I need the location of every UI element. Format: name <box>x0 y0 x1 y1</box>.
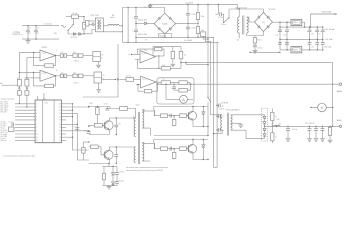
capacitor C4 module <box>92 22 94 26</box>
svg-text:17: 17 <box>59 127 61 129</box>
wire fb4 right <box>152 84 158 91</box>
node S1 a <box>68 30 69 31</box>
svg-text:150к: 150к <box>201 16 205 18</box>
svg-text:КРЕН: КРЕН <box>293 22 297 24</box>
node outrail4 <box>322 126 323 127</box>
node lv6 <box>309 49 310 50</box>
resistor R2 <box>82 23 85 30</box>
wire x188 a <box>187 4 189 13</box>
capacitor C19 low <box>285 43 289 45</box>
node bus v1 top <box>207 4 208 5</box>
svg-text:С31 0,1: С31 0,1 <box>126 75 132 77</box>
resistor R27 <box>179 81 187 85</box>
transformer T2 core <box>137 112 139 164</box>
resistor R3b <box>25 91 29 96</box>
wire bridge top lead <box>164 8 166 14</box>
svg-text:0,1: 0,1 <box>37 33 39 35</box>
transistor block2 <box>188 144 197 153</box>
wire IC pin R12 <box>61 139 66 141</box>
wire T1 aux r3 <box>254 47 256 50</box>
wire B inner <box>158 82 190 84</box>
inductor Dr1 box <box>120 107 128 111</box>
wire op2 +in <box>27 77 40 79</box>
node VT2 e <box>116 163 117 164</box>
wire left vertical feed <box>18 52 20 79</box>
wire aux d mid <box>112 176 114 182</box>
current sense box <box>157 78 194 104</box>
node r3a <box>19 103 20 104</box>
node c25 a <box>322 26 323 27</box>
svg-text:С2: С2 <box>37 27 39 29</box>
box TV sensor <box>86 21 90 27</box>
node block2 em <box>207 159 208 160</box>
wire cap25 stub <box>322 27 324 30</box>
diode VD1 <box>73 33 75 36</box>
wire block1 diode bot <box>202 114 204 126</box>
node R13 feed <box>88 141 89 142</box>
IC U1 PWM controller outer <box>35 100 61 143</box>
node vm left <box>310 107 311 108</box>
node op1 out <box>55 55 56 56</box>
wire VT1 base feed <box>89 124 95 126</box>
wire top AC rail <box>22 25 59 27</box>
bridge rectifier VD5-VD8 <box>255 13 273 32</box>
wire chain2 b <box>83 75 94 77</box>
wire reg2 out <box>302 49 323 51</box>
wire op1 -in <box>19 51 40 53</box>
node r16 tap <box>180 62 181 63</box>
wire out plus drop <box>332 63 334 127</box>
ground C37 <box>307 139 312 142</box>
node bridge bottom <box>164 37 165 38</box>
svg-text:-Uс 300В: -Uс 300В <box>184 40 193 42</box>
wire bus v2 <box>205 36 210 114</box>
svg-text:R1 75к: R1 75к <box>73 13 78 15</box>
wire pinr ext1 <box>66 106 89 108</box>
regulator DA1 box <box>291 19 302 25</box>
wire bridge right lead <box>176 22 198 24</box>
wire 12V arrow feed <box>310 14 312 27</box>
wire A horizontal <box>181 62 333 64</box>
node outrail1 <box>287 126 288 127</box>
svg-text:10к 1%: 10к 1% <box>74 82 80 84</box>
node outrail3 <box>315 126 316 127</box>
node outrail5 <box>329 126 330 127</box>
wire VT2 cap b <box>115 156 117 163</box>
node VT1 e <box>116 134 117 135</box>
wire r16 top <box>180 47 182 52</box>
svg-text:ВЫХ-: ВЫХ- <box>337 120 343 122</box>
svg-text:IC1.4: IC1.4 <box>142 79 146 81</box>
wire cap20 stub2 <box>309 32 311 40</box>
wire diode chain <box>72 33 84 35</box>
svg-text:12В 250мА: 12В 250мА <box>322 10 332 13</box>
wire term b stub <box>26 86 28 88</box>
node aux a <box>112 166 113 167</box>
terminal OUT- <box>339 125 341 127</box>
wire T1 top rail <box>228 9 230 18</box>
svg-text:вывод контроллера: вывод контроллера <box>1 98 15 100</box>
wire block1 diode top <box>202 107 204 112</box>
resistor R8a <box>60 74 63 78</box>
wire bus cap2 stub <box>217 115 218 117</box>
resistor R2a input <box>17 79 21 86</box>
wire VT1 cap a <box>115 118 117 125</box>
node rail a <box>122 25 123 26</box>
wire lv rail B2 <box>286 32 288 50</box>
wire term a stub2 <box>18 89 20 91</box>
svg-text:24: 24 <box>59 103 61 105</box>
wire T1 sec bottom <box>247 32 264 36</box>
svg-text:С9 1м: С9 1м <box>104 104 108 106</box>
svg-text:КЦ405: КЦ405 <box>162 24 167 26</box>
wire pinr ext2 <box>66 112 77 114</box>
capacitor block1 speedup <box>170 114 172 118</box>
ground P1 <box>96 65 101 68</box>
svg-text:ВТ2 +12В п: ВТ2 +12В п <box>1 103 9 105</box>
winding block1 input <box>153 110 156 116</box>
resistor R9b <box>78 74 83 78</box>
wire c4 stub2 <box>94 23 96 25</box>
svg-text:частота преобразователя с удво: частота преобразователя с удвоенными имп… <box>3 155 35 157</box>
wire T1 aux r <box>254 36 256 38</box>
wire fb3 vert <box>136 49 138 54</box>
capacitor on fb bus <box>87 132 91 134</box>
node rail1 a <box>135 37 136 38</box>
svg-text:10к: 10к <box>73 73 76 75</box>
winding T3 secondary <box>231 115 233 131</box>
svg-text:+5В КРЕН: +5В КРЕН <box>221 102 229 104</box>
wire bottom rail 2 <box>122 41 218 43</box>
svg-text:1м: 1м <box>222 105 224 107</box>
winding M1 secondary <box>100 20 102 29</box>
wire IC pin L8 <box>15 127 35 129</box>
wire pinr ext5 <box>66 136 73 138</box>
capacitor C11 snub <box>114 155 118 157</box>
wire cap23 stub2 <box>309 44 311 50</box>
svg-text:С23: С23 <box>311 46 314 48</box>
wire T2 sec tap1 <box>142 110 154 112</box>
node 12v <box>88 106 89 107</box>
diode block1 clamp <box>202 112 205 114</box>
wire aux cap stub <box>116 166 118 172</box>
node op4 fb <box>157 84 158 85</box>
transistor VT2 driver <box>104 150 113 159</box>
node r16 join <box>207 64 208 65</box>
wire R13 hfeed <box>83 141 88 143</box>
node relay feed <box>218 4 219 5</box>
wire pullup drop <box>152 47 154 56</box>
wire block2 diode bot <box>202 147 204 159</box>
wire ocap2 stub2 <box>322 130 324 138</box>
node q1 base rail <box>88 126 89 127</box>
svg-text:12к: 12к <box>144 50 147 52</box>
capacitor C25 <box>321 30 325 32</box>
node aux b <box>112 185 113 186</box>
winding dot b <box>143 109 144 110</box>
node outrail2 <box>309 126 310 127</box>
capacitor C17 <box>278 30 282 32</box>
wire rail x128 <box>127 8 129 43</box>
op-amp IC1.1 <box>40 50 56 61</box>
test point TP <box>117 79 119 81</box>
svg-text:140 мк: 140 мк <box>221 24 226 26</box>
node t1 top <box>239 8 240 9</box>
svg-text:LM324: LM324 <box>41 47 47 49</box>
resistor R5a <box>60 54 63 58</box>
diode VD34 <box>263 134 266 136</box>
terminal input A <box>19 88 21 90</box>
svg-text:-5В, 0мА: -5В, 0мА <box>324 46 332 49</box>
wire op4 out jog <box>156 82 158 84</box>
wire x188 b <box>187 15 189 27</box>
capacitor C22 <box>315 30 319 32</box>
capacitor C5 electrolytic <box>134 17 138 19</box>
node fb bus <box>72 103 73 104</box>
wire ammeter right <box>187 98 193 100</box>
wire fb4 vert <box>137 85 139 92</box>
wire fb3 right <box>162 49 164 56</box>
wire aux net feed <box>108 164 110 167</box>
wire cap rail x136 top <box>135 8 137 16</box>
wire C3 lead low <box>35 32 37 39</box>
wire r15 gnd <box>172 59 174 63</box>
wire voltmeter right <box>326 107 332 109</box>
resistor R11 <box>91 145 99 149</box>
node rect out <box>264 126 265 127</box>
node mid rail <box>207 135 208 136</box>
capacitor C18 low <box>278 43 282 45</box>
capacitor C35 <box>286 129 290 131</box>
wire block1 top rail <box>154 106 208 108</box>
wire r28 left <box>174 89 179 91</box>
wire block2 vres bot <box>173 159 175 160</box>
resistor R14 <box>102 173 105 180</box>
wire op2 -in <box>19 71 40 73</box>
resistor R24 <box>161 67 170 70</box>
wire IC pin L10 <box>15 133 35 135</box>
wire IC pin R8 <box>61 127 66 129</box>
resistor R21 <box>253 38 256 44</box>
svg-text:С13 0,1: С13 0,1 <box>191 14 197 16</box>
resistor R4 feedback <box>45 64 54 67</box>
svg-text:1114: 1114 <box>45 102 48 104</box>
wire relay feed <box>217 4 219 14</box>
wire B jog <box>189 83 191 85</box>
wire R1 right lead <box>78 16 84 18</box>
wire top HV rail <box>150 3 237 5</box>
wire cap22 stub <box>316 27 318 30</box>
wire IC pin L2 <box>15 106 35 108</box>
op-amp IC1.3 <box>140 51 156 63</box>
resistor R13 <box>82 148 85 154</box>
svg-text:С14 0,1: С14 0,1 <box>191 28 197 30</box>
node AC top C2 <box>27 25 28 26</box>
winding dot c <box>143 143 144 144</box>
transformer T1 core <box>241 16 243 35</box>
resistor R9a <box>73 74 77 78</box>
capacitor C3 <box>34 30 38 32</box>
node block1 d2 <box>203 126 204 127</box>
svg-text:1к: 1к <box>101 57 103 59</box>
wire bridge bottom lead <box>164 34 166 37</box>
diode block2 clamp <box>202 145 205 147</box>
underline 220V <box>12 34 23 36</box>
wire M1 out bottom <box>103 31 122 33</box>
capacitor C15 <box>220 12 222 16</box>
ground T3 center tap <box>238 125 243 128</box>
svg-text:К8 +12В к: К8 +12В к <box>1 136 8 138</box>
resistor R15 pullup <box>171 51 174 58</box>
wire IC pin L7 <box>15 123 35 125</box>
wire VT1 cap b <box>115 127 117 135</box>
svg-text:A: A <box>182 98 185 102</box>
svg-text:4: 4 <box>56 50 57 52</box>
wire R22 bot <box>271 121 273 127</box>
wire VT2 base <box>98 147 105 155</box>
wire rect out <box>265 125 271 127</box>
svg-text:1м: 1м <box>319 34 321 36</box>
svg-text:К3 2,5В: К3 2,5В <box>1 126 6 128</box>
node op3 in <box>131 54 132 55</box>
node r3b <box>26 106 27 107</box>
node op1 fb <box>33 52 34 53</box>
wire VT2 collector <box>109 147 135 151</box>
node p124 <box>77 124 78 125</box>
capacitor C39 <box>320 129 324 131</box>
wire block1 base <box>186 115 188 117</box>
node lv5 <box>279 39 280 40</box>
wire M1 out mid <box>103 25 108 27</box>
wire IC top a <box>36 96 38 100</box>
wire r15 top <box>172 47 174 52</box>
node c5s <box>149 4 150 5</box>
wire op2 fb out <box>54 76 56 86</box>
svg-text:С13 1м: С13 1м <box>119 171 124 173</box>
svg-text:ВТ6 3,6В: ВТ6 3,6В <box>1 112 7 114</box>
box DA aux <box>9 127 15 132</box>
wire block2 vres top <box>173 149 175 153</box>
node rail5 a <box>279 26 280 27</box>
resistor R7 feedback <box>45 84 54 87</box>
wire p2 out <box>102 78 116 80</box>
capacitor C inside <box>172 87 176 89</box>
wire c5s stub <box>149 4 151 5</box>
terminal input B <box>26 88 28 90</box>
wire bus join <box>214 167 218 169</box>
resistor R2b input <box>25 79 29 86</box>
resistor R3a <box>17 91 21 96</box>
capacitor C14b <box>115 182 119 184</box>
node outrail0 <box>276 126 277 127</box>
wire minus5 join <box>321 49 323 51</box>
wire block2 row <box>154 148 186 150</box>
wire 12V rail <box>89 106 110 108</box>
wire T3 center tap <box>231 122 241 125</box>
wire op3 out <box>153 55 164 57</box>
wire T1 aux r2 <box>254 43 256 45</box>
wire pullup rail <box>153 46 181 48</box>
wire IC pin R10 <box>61 133 66 135</box>
winding block2 input <box>153 143 156 149</box>
svg-text:С7: С7 <box>145 40 147 42</box>
node lv8 <box>286 49 287 50</box>
wire block1 wind lead <box>153 107 155 111</box>
svg-text:С6 0,1: С6 0,1 <box>9 121 14 123</box>
arrow aux output <box>250 51 281 53</box>
ground mains filter <box>26 41 31 44</box>
wire bottom rail 1 <box>136 36 214 38</box>
node op2 tap <box>19 72 20 73</box>
wire C3 lead <box>35 26 37 31</box>
winding M1 primary <box>97 20 99 29</box>
wire sensor lead <box>203 36 208 39</box>
wire chain1 b <box>83 55 93 57</box>
wire R23 bot <box>271 141 273 143</box>
node lv1 <box>317 26 318 27</box>
wire R2 bottom lead <box>83 29 85 34</box>
arrow +12V output <box>311 13 338 15</box>
wire IC pin L6 <box>15 119 35 121</box>
wire op3 +in <box>135 58 140 60</box>
wire r16 to sensor <box>186 64 208 66</box>
wire C2 lead low <box>27 32 29 39</box>
wire bus v1 <box>207 4 209 97</box>
resistor R16 pullup <box>179 51 183 58</box>
wire S1 up <box>72 17 74 25</box>
diode VD31 <box>263 116 266 118</box>
wire module feed top <box>89 20 95 22</box>
svg-text:22: 22 <box>59 110 61 112</box>
node rail2 b <box>135 42 136 43</box>
wire C2 lead <box>27 26 29 31</box>
wire VT2 base feed <box>89 146 91 148</box>
node bridge left <box>135 23 136 24</box>
resistor block1 base1 <box>161 114 168 118</box>
wire cap174 stub2 <box>173 89 175 91</box>
svg-text:12: 12 <box>36 140 38 142</box>
trim pot P2 <box>94 72 102 83</box>
wire chain1 a <box>67 55 73 57</box>
node hv4 <box>197 37 198 38</box>
wire input from edge <box>2 84 18 86</box>
wire x188 c <box>187 29 189 38</box>
resistor R26 <box>161 81 170 85</box>
node c5s b <box>149 7 150 8</box>
node op2 out <box>55 75 56 76</box>
wire r28 right <box>187 84 190 90</box>
wire block1 vres bot <box>173 126 175 127</box>
wire IC pin R1 <box>61 103 66 105</box>
ground C35 <box>286 139 291 142</box>
wire ocap0 stub2 <box>309 130 311 138</box>
wire aux cap low <box>116 183 118 185</box>
wire T3 sec bottom tap <box>231 130 265 138</box>
wire block2 diode top <box>202 140 204 145</box>
wire R2 top lead <box>83 17 85 23</box>
node sw b <box>228 17 229 18</box>
capacitor C2 <box>26 30 30 32</box>
wire cap174 stub <box>173 84 175 87</box>
resistor R20 <box>196 27 199 34</box>
wire VT1 collector <box>109 118 135 121</box>
wire top rail to bridge2 <box>230 8 264 10</box>
winding T2 primary upper <box>134 118 136 137</box>
node x128 t <box>127 7 128 8</box>
capacitor C13b <box>115 173 119 175</box>
svg-text:ВТ3 0,5В др: ВТ3 0,5В др <box>1 105 9 107</box>
svg-text:С20: С20 <box>311 34 314 36</box>
